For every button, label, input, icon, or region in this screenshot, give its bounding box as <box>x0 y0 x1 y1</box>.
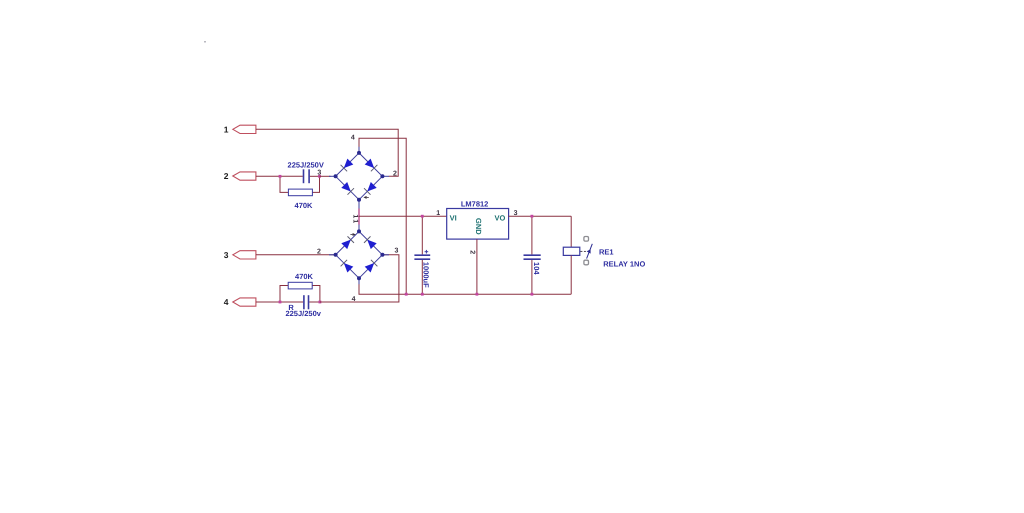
svg-text:1000uF: 1000uF <box>421 262 430 288</box>
svg-text:2: 2 <box>393 171 397 178</box>
relay RL1 coil <box>563 216 580 294</box>
diode D8 bottom-right <box>365 263 375 273</box>
svg-text:2: 2 <box>317 248 321 255</box>
svg-text:GND: GND <box>474 218 483 235</box>
svg-text:1: 1 <box>224 124 229 134</box>
connector J1 <box>224 124 256 134</box>
plus marker <box>350 233 355 236</box>
svg-text:LM7812: LM7812 <box>461 200 489 209</box>
capacitor C2 225J/250v <box>280 295 322 318</box>
node V+ vertical between bridges (pin1-pin1) <box>358 209 360 225</box>
node A junction <box>279 175 282 178</box>
pin stubs <box>358 225 360 232</box>
capacitor C1 225J/250V <box>280 160 324 183</box>
stray speck artifact <box>204 41 206 43</box>
capacitor C3 1000uF <box>414 216 430 294</box>
svg-text:1: 1 <box>352 219 359 223</box>
svg-text:470K: 470K <box>295 272 314 281</box>
svg-text:4: 4 <box>351 135 355 142</box>
diode D3 bottom-left <box>341 182 351 192</box>
junction at BR1 loop <box>405 293 408 296</box>
diode D6 top-right <box>367 240 377 250</box>
voltage regulator U1 LM7812 <box>436 200 517 255</box>
svg-text:4: 4 <box>224 297 229 307</box>
svg-text:225J/250V: 225J/250V <box>288 160 324 169</box>
connector J2 <box>224 171 256 181</box>
node B junction <box>318 175 321 178</box>
svg-text:3: 3 <box>395 248 399 255</box>
diode D4 bottom-right <box>367 182 377 192</box>
connector J4 <box>224 297 256 307</box>
wire J1 to bridge BR1 pin2 loop <box>256 129 398 176</box>
svg-text:2: 2 <box>224 171 229 181</box>
svg-text:1: 1 <box>436 210 440 217</box>
diode D5 top-left <box>341 240 351 250</box>
diode D7 bottom-left <box>344 263 354 273</box>
junction VO at C4 <box>531 215 534 218</box>
svg-text:3: 3 <box>224 250 229 260</box>
svg-text:104: 104 <box>532 262 541 275</box>
wire U1 GND pin to ground rail <box>476 239 478 294</box>
wire J3 to bridge BR2 pin2 <box>256 254 334 256</box>
capacitor C4 104 <box>524 216 542 294</box>
svg-text:3: 3 <box>317 170 321 177</box>
plus marker <box>363 196 368 199</box>
diamond edges <box>336 231 383 278</box>
node D junction <box>319 301 322 304</box>
wire J2 to node A <box>256 175 280 177</box>
wire U1 VO to relay <box>509 215 572 217</box>
vertex pads <box>357 151 361 155</box>
junction at C3 ground <box>421 293 424 296</box>
wire V+ rail to U1 VI <box>359 215 447 217</box>
wire node B to BR1 pin3 <box>320 175 331 177</box>
diode D2 top-right <box>365 159 375 169</box>
vertex pads <box>357 229 361 233</box>
junction at U1 GND <box>476 293 479 296</box>
connector J3 <box>224 250 256 260</box>
diode D1 top-left <box>344 159 354 169</box>
resistor R2 470K <box>280 272 320 302</box>
resistor R1 470K <box>280 176 320 210</box>
wire BR1 pin4 loop to ground rail <box>359 138 406 294</box>
svg-text:VI: VI <box>450 213 457 222</box>
svg-text:470K: 470K <box>295 201 314 210</box>
wire J4 to node C <box>256 301 280 303</box>
svg-text:4: 4 <box>352 296 356 303</box>
svg-text:VO: VO <box>495 213 506 222</box>
bridge rectifier BR2 <box>317 219 399 303</box>
wire node D to BR2 pin3 loop <box>320 255 399 302</box>
svg-text:225J/250v: 225J/250v <box>285 309 321 318</box>
wire BR2 pin4 to ground rail <box>359 284 571 294</box>
node C junction <box>279 301 282 304</box>
svg-text:1: 1 <box>352 214 359 218</box>
svg-text:RELAY 1NO: RELAY 1NO <box>603 260 645 269</box>
relay RL1 contact <box>580 237 592 265</box>
junction at C4 ground <box>531 293 534 296</box>
junction V+ at C3 <box>421 215 424 218</box>
svg-text:2: 2 <box>469 250 476 254</box>
svg-text:RE1: RE1 <box>599 248 614 257</box>
diamond edges <box>336 153 383 200</box>
bridge rectifier BR1 <box>317 135 397 219</box>
pin stubs <box>358 146 360 153</box>
